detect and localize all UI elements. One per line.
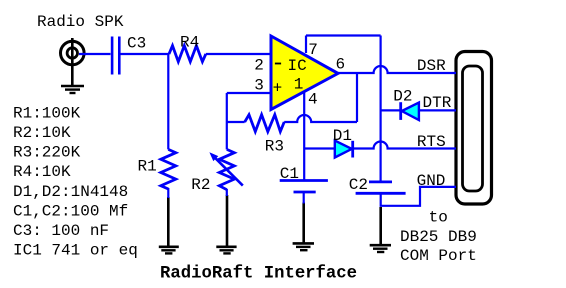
svg-text:D1: D1: [333, 127, 352, 145]
svg-text:DSR: DSR: [417, 57, 446, 75]
svg-text:R3: R3: [265, 138, 284, 156]
svg-text:GND: GND: [417, 172, 446, 190]
svg-text:D2: D2: [393, 88, 412, 106]
svg-text:C3: 100 nF: C3: 100 nF: [13, 222, 109, 240]
svg-text:RadioRaft Interface: RadioRaft Interface: [160, 265, 357, 284]
svg-text:C3: C3: [127, 35, 146, 53]
svg-text:C2: C2: [349, 176, 368, 194]
svg-text:1: 1: [294, 76, 304, 94]
svg-text:+: +: [273, 79, 283, 97]
svg-text:R3:220K: R3:220K: [13, 144, 81, 162]
svg-text:R1:100K: R1:100K: [13, 104, 81, 122]
svg-text:DB25 DB9: DB25 DB9: [400, 228, 477, 246]
svg-text:R4: R4: [180, 33, 199, 51]
svg-text:4: 4: [308, 90, 318, 108]
svg-text:DTR: DTR: [423, 94, 452, 112]
svg-text:3: 3: [254, 76, 264, 94]
svg-text:R2:10K: R2:10K: [13, 124, 71, 142]
svg-text:2: 2: [254, 56, 264, 74]
svg-text:COM Port: COM Port: [400, 247, 477, 265]
svg-text:D1,D2:1N4148: D1,D2:1N4148: [13, 183, 128, 201]
svg-text:Radio SPK: Radio SPK: [37, 13, 124, 31]
svg-text:7: 7: [308, 41, 318, 59]
svg-text:IC: IC: [288, 57, 307, 75]
svg-text:R2: R2: [191, 176, 210, 194]
svg-text:RTS: RTS: [417, 133, 446, 151]
svg-text:C1: C1: [280, 165, 299, 183]
svg-text:R1: R1: [138, 158, 157, 176]
svg-text:R4:10K: R4:10K: [13, 163, 71, 181]
svg-text:6: 6: [336, 56, 346, 74]
svg-text:IC1 741 or eq: IC1 741 or eq: [13, 242, 138, 260]
svg-text:C1,C2:100 Mf: C1,C2:100 Mf: [13, 202, 128, 220]
svg-text:to: to: [429, 208, 448, 226]
